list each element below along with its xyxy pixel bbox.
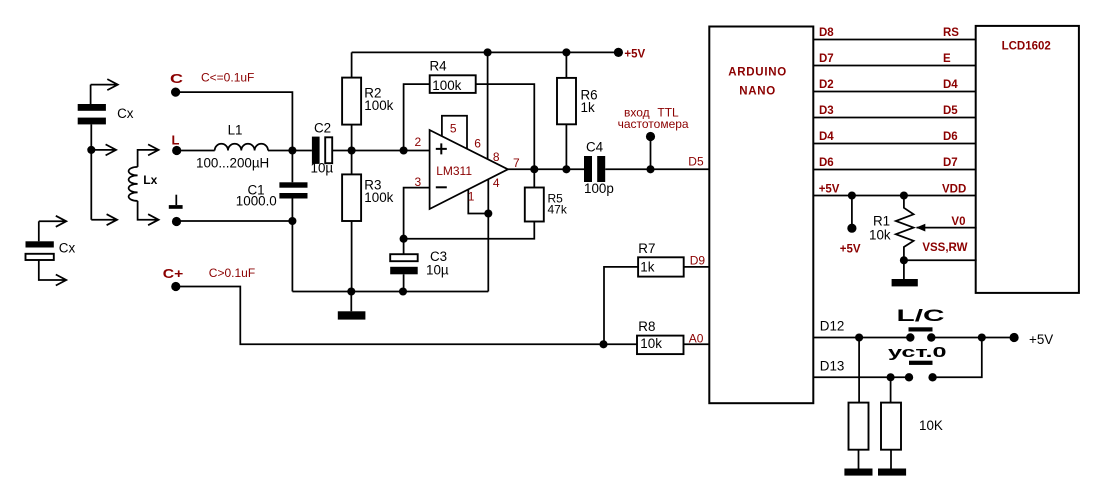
- svg-text:100k: 100k: [364, 190, 393, 205]
- svg-text:VSS,RW: VSS,RW: [922, 242, 967, 254]
- svg-text:1k: 1k: [581, 100, 595, 115]
- svg-text:D6: D6: [819, 157, 834, 169]
- svg-text:100k: 100k: [364, 98, 393, 113]
- svg-text:Lx: Lx: [143, 173, 157, 187]
- svg-text:100...200µH: 100...200µH: [196, 156, 269, 171]
- svg-text:D3: D3: [819, 105, 834, 117]
- svg-text:C4: C4: [586, 140, 604, 155]
- svg-text:+5V: +5V: [1029, 332, 1053, 347]
- svg-text:10K: 10K: [919, 418, 943, 433]
- svg-text:E: E: [943, 53, 951, 65]
- svg-text:C: C: [170, 71, 184, 86]
- svg-text:C<=0.1uF: C<=0.1uF: [201, 71, 254, 85]
- svg-text:Cx: Cx: [117, 106, 134, 121]
- svg-text:D7: D7: [819, 53, 834, 65]
- svg-text:+5V: +5V: [840, 243, 861, 255]
- svg-text:R7: R7: [638, 241, 655, 256]
- svg-text:LM311: LM311: [436, 164, 472, 178]
- svg-text:V0: V0: [951, 216, 965, 228]
- svg-text:10µ: 10µ: [426, 263, 449, 278]
- svg-text:A0: A0: [689, 331, 704, 345]
- svg-text:уст.0: уст.0: [888, 344, 947, 361]
- svg-text:6: 6: [474, 137, 481, 151]
- svg-text:47k: 47k: [548, 203, 568, 217]
- svg-text:8: 8: [493, 150, 500, 164]
- svg-text:2: 2: [415, 135, 422, 149]
- svg-text:D5: D5: [688, 155, 704, 169]
- svg-text:RS: RS: [943, 27, 959, 39]
- svg-text:D13: D13: [820, 358, 845, 373]
- svg-text:C2: C2: [314, 121, 331, 136]
- svg-text:C+: C+: [163, 266, 184, 281]
- svg-text:L/C: L/C: [897, 306, 945, 325]
- svg-text:LCD1602: LCD1602: [1002, 41, 1051, 53]
- svg-text:100k: 100k: [432, 78, 461, 93]
- svg-text:частотомера: частотомера: [618, 117, 689, 131]
- svg-text:D4: D4: [943, 79, 958, 91]
- svg-text:1: 1: [468, 190, 475, 204]
- svg-text:1000.0: 1000.0: [236, 193, 277, 208]
- svg-text:10k: 10k: [640, 336, 662, 351]
- svg-text:C>0.1uF: C>0.1uF: [209, 266, 255, 280]
- svg-text:D2: D2: [819, 79, 834, 91]
- svg-text:1k: 1k: [640, 259, 654, 274]
- svg-text:VDD: VDD: [942, 183, 966, 195]
- svg-text:Cx: Cx: [59, 241, 76, 256]
- svg-text:D6: D6: [943, 131, 958, 143]
- svg-text:5: 5: [450, 122, 457, 136]
- svg-text:L1: L1: [228, 123, 243, 138]
- svg-text:R8: R8: [638, 319, 655, 334]
- svg-text:4: 4: [493, 176, 500, 190]
- svg-text:R4: R4: [430, 59, 448, 74]
- svg-text:+5V: +5V: [624, 48, 645, 60]
- svg-text:R1: R1: [873, 214, 890, 229]
- svg-text:D7: D7: [943, 157, 958, 169]
- svg-text:3: 3: [415, 175, 422, 189]
- svg-text:D12: D12: [820, 319, 845, 334]
- svg-text:+5V: +5V: [819, 183, 840, 195]
- svg-text:L: L: [172, 133, 180, 148]
- svg-text:D8: D8: [819, 27, 834, 39]
- svg-text:100p: 100p: [584, 181, 614, 196]
- svg-text:10k: 10k: [869, 228, 891, 243]
- svg-text:ARDUINO: ARDUINO: [728, 66, 787, 78]
- svg-text:7: 7: [513, 156, 520, 170]
- svg-text:D4: D4: [819, 131, 834, 143]
- svg-text:D5: D5: [943, 105, 958, 117]
- svg-text:D9: D9: [690, 254, 706, 268]
- svg-text:NANO: NANO: [739, 86, 776, 98]
- svg-text:10µ: 10µ: [311, 161, 334, 176]
